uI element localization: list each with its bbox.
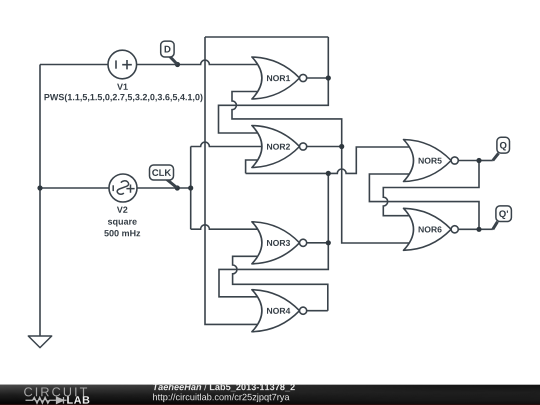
wire: NOR2-output rail down to NOR6 lower input bbox=[342, 147, 414, 244]
wire: NOR3 lower input loop from NOR4 output with hop bbox=[233, 256, 328, 310]
NOR gate U3 bbox=[252, 222, 307, 264]
label V2 type square bbox=[108, 220, 137, 227]
NOR gate U6 bbox=[404, 208, 459, 250]
wire: NOR6 output to Q-prime node bbox=[458, 228, 479, 230]
label V2 bbox=[117, 207, 128, 213]
wire: NOR1 output segment bbox=[307, 77, 329, 79]
voltage source V1 (PWS) bbox=[108, 50, 137, 79]
logo LAB bbox=[67, 396, 89, 403]
credit author name bbox=[153, 383, 201, 390]
wire: NOR3 top input with hop over NOR1-output rail bbox=[191, 225, 263, 229]
wire: NOR2 output segment bbox=[307, 146, 342, 148]
NOR gate U2 bbox=[252, 126, 307, 168]
node flag Q bbox=[493, 137, 510, 160]
junction: NOR1 output node bbox=[326, 75, 331, 80]
logo CIRCUIT bbox=[24, 387, 87, 396]
label V1 bbox=[117, 84, 128, 90]
junction: Q output node bbox=[476, 158, 481, 163]
wire: V2 to CLK net row bbox=[40, 187, 191, 189]
junction: CLK flag attach bbox=[175, 185, 180, 190]
wire: Q-prime node stub to flag bbox=[479, 228, 493, 230]
voltage source V2 (square wave) bbox=[109, 174, 137, 202]
wire: NOR1 feedback down-left-down to NOR2 top input bbox=[219, 37, 329, 133]
wire: NOR5 output to Q node bbox=[458, 160, 479, 162]
wire: NOR3 output loop to NOR4 top input bbox=[219, 243, 328, 297]
logo resistor and diode glyph bbox=[26, 397, 67, 404]
wire: CLK branch vertical bbox=[190, 147, 192, 230]
junction: NOR3 output node bbox=[326, 240, 331, 245]
junction: NOR2 output node bbox=[339, 144, 344, 149]
NOR gate U5 bbox=[404, 140, 459, 182]
wire: NOR2 lower input loop bbox=[246, 160, 262, 173]
footer bar bbox=[0, 385, 540, 405]
wire: Q node stub to flag bbox=[479, 160, 493, 162]
wire: V1 to D net row with hop over NOR1-output rail bbox=[40, 60, 262, 64]
wire: NOR6 feedback up-left-up to NOR5 lower input bbox=[369, 174, 479, 229]
node flag Q-prime bbox=[493, 206, 512, 229]
credit url bbox=[153, 394, 289, 403]
wire: ground rail from V1 row down to ground symbol bbox=[39, 65, 41, 337]
wire: NOR1-output rail down to NOR4 lower input bbox=[205, 37, 263, 324]
junction: D flag attach bbox=[175, 62, 180, 67]
node flag CLK bbox=[150, 165, 178, 188]
label V1 value PWS list bbox=[45, 94, 203, 102]
wire: NOR3 output segment bbox=[307, 242, 329, 244]
wire: NOR2 middle input with hop over NOR1-output rail bbox=[191, 142, 262, 146]
node flag D bbox=[161, 41, 178, 64]
junction: Q-prime output node bbox=[476, 227, 481, 232]
junction: shared net branch node bbox=[326, 171, 331, 176]
junction: CLK branch node bbox=[188, 185, 193, 190]
wire: NOR5 feedback down-left-down to NOR6 top input with hop bbox=[383, 161, 479, 216]
wire: NOR4 output segment bbox=[307, 310, 328, 312]
wire: branch down to NOR3 output node bbox=[327, 173, 329, 242]
wire: NOR1 lower input loop from NOR2 output rail with hop bbox=[232, 92, 342, 147]
wire: shared net to NOR5 top input with hop over NOR2-output rail bbox=[246, 147, 414, 173]
wire: top feedback segment bbox=[205, 36, 328, 38]
ground bbox=[28, 336, 51, 348]
NOR gate U1 bbox=[252, 57, 307, 99]
NOR gate U4 bbox=[252, 290, 307, 332]
label V2 frequency bbox=[104, 230, 140, 236]
junction: V2 to ground rail bbox=[37, 185, 42, 190]
credit separator and title bbox=[204, 383, 207, 390]
